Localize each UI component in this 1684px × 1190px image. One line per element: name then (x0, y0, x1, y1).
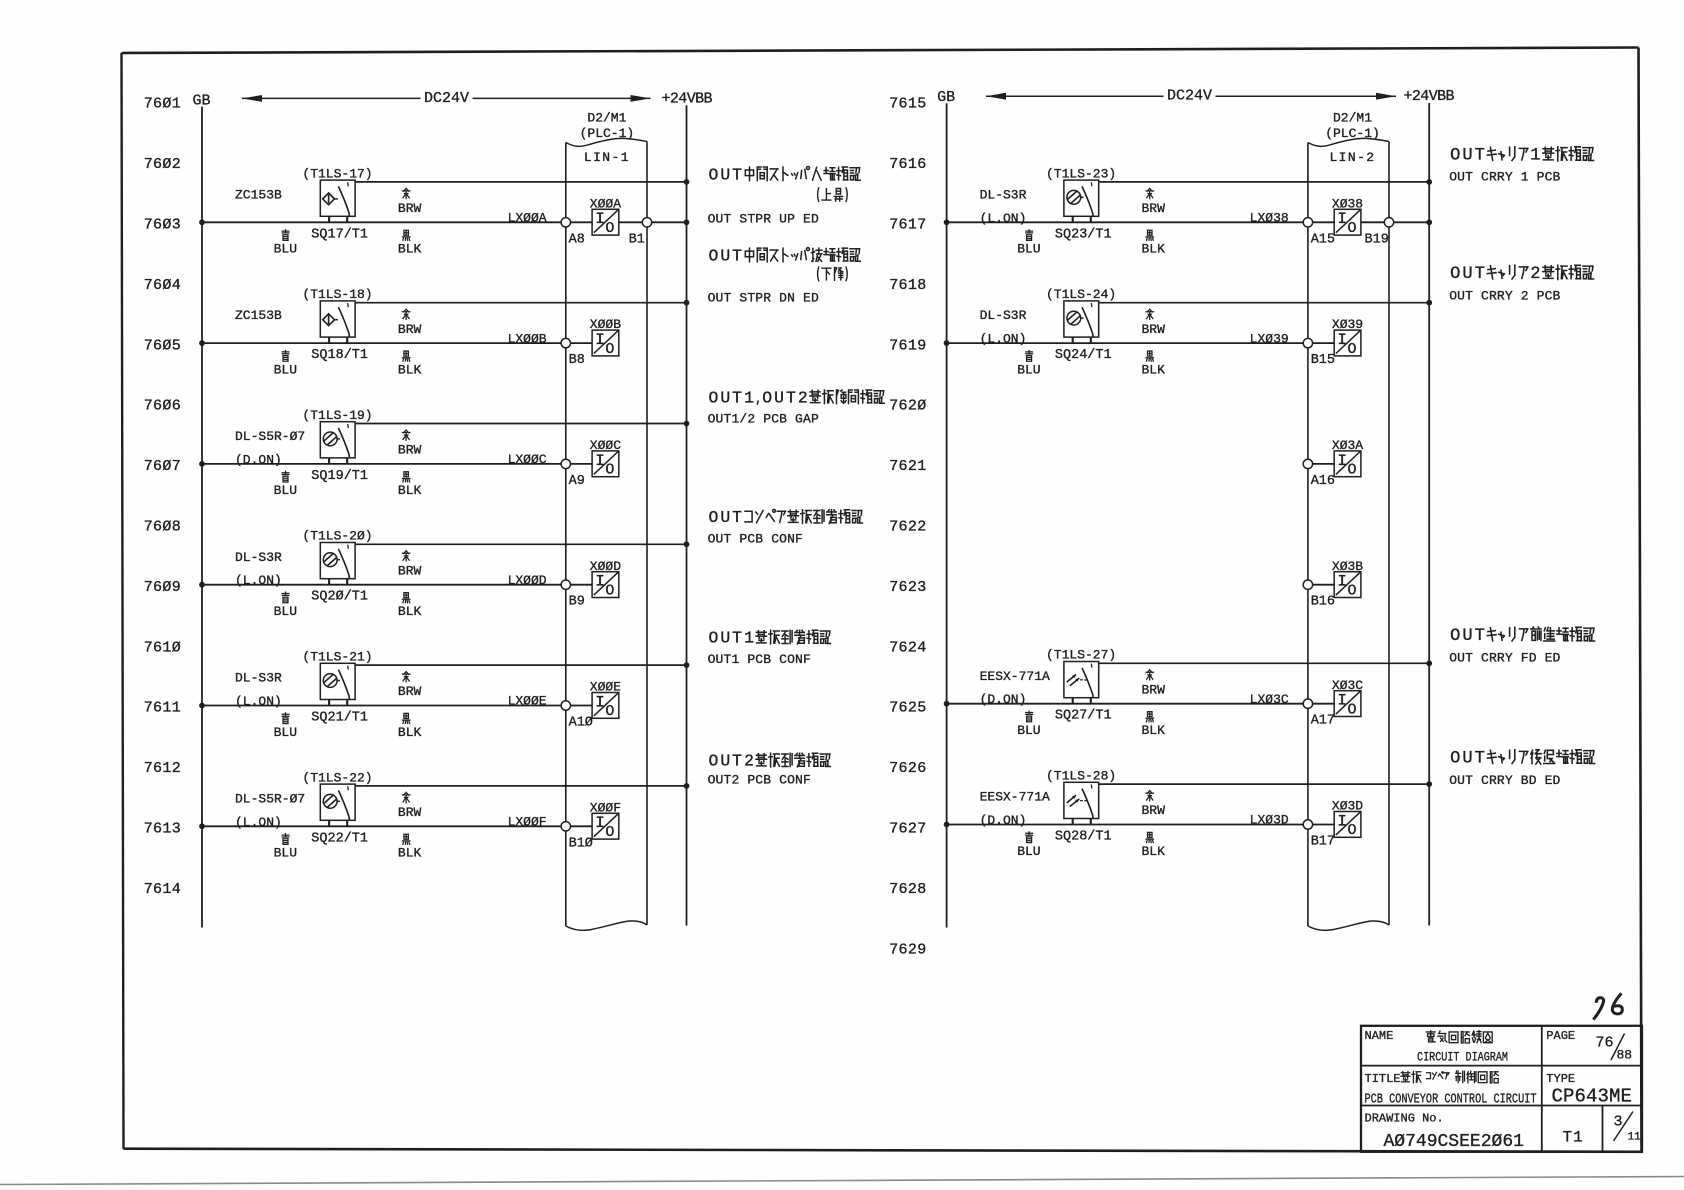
junction on +24VBB bus for SQ28/T1 (1426, 781, 1432, 787)
svg-text:B17: B17 (1311, 835, 1335, 850)
svg-text:B9: B9 (569, 595, 585, 610)
lead color label BLK (398, 230, 422, 256)
lead color label BRW (1142, 791, 1166, 819)
svg-text:O: O (708, 388, 718, 407)
svg-text:A16: A16 (1311, 474, 1335, 489)
svg-text:B1Ø: B1Ø (569, 836, 593, 851)
PLC terminal B10 (561, 822, 570, 831)
svg-text:76: 76 (1596, 1035, 1614, 1052)
description: OUT carry 1 PCB confirm (rung 7617) (1449, 147, 1593, 185)
svg-text:+24VBB: +24VBB (662, 90, 713, 107)
svg-text:XØ3D: XØ3D (1332, 799, 1363, 814)
svg-text:I: I (1337, 331, 1347, 349)
svg-text:BLU: BLU (274, 362, 297, 377)
wire rung 7627 from GB bus to PLC terminal B17 (947, 824, 1335, 826)
svg-text:T: T (786, 388, 796, 407)
svg-text:U: U (720, 388, 730, 407)
svg-text:BLK: BLK (1142, 844, 1166, 859)
svg-text:U: U (720, 629, 730, 648)
lead color label BLK (398, 593, 422, 619)
svg-text:BLU: BLU (1017, 362, 1040, 377)
PLC terminal A8 (561, 218, 570, 227)
wire from switch SQ21/T1 to +24VBB bus (355, 664, 686, 666)
svg-text:DL-S5R-Ø7: DL-S5R-Ø7 (235, 429, 305, 444)
svg-text:(PLC-1): (PLC-1) (580, 126, 635, 141)
description: OUT conveyor PCB arrival confirm (rung 7609) (708, 508, 863, 547)
svg-text:7611: 7611 (144, 700, 181, 717)
svg-text:O: O (605, 341, 614, 358)
svg-text:762Ø: 762Ø (889, 398, 926, 415)
svg-text:T: T (1475, 750, 1485, 769)
svg-text:XØØD: XØØD (590, 559, 621, 574)
lead color label BLU (274, 230, 297, 257)
svg-text:O: O (605, 220, 614, 237)
PLC input point X00E (592, 693, 619, 721)
svg-text:DL-S5R-Ø7: DL-S5R-Ø7 (235, 791, 305, 806)
svg-text:88: 88 (1617, 1048, 1633, 1063)
lead color label BLK (1142, 351, 1166, 377)
svg-text:BLU: BLU (1017, 844, 1040, 859)
svg-text:AØ749CSEE2Ø61: AØ749CSEE2Ø61 (1384, 1132, 1524, 1152)
svg-text:I: I (1337, 692, 1347, 710)
svg-text:7613: 7613 (144, 821, 181, 838)
wire from switch SQ24/T1 to +24VBB bus (1099, 302, 1430, 304)
GB bus vertical wire (right) (946, 103, 948, 927)
svg-text:T: T (732, 508, 742, 527)
svg-text:76Ø7: 76Ø7 (144, 458, 181, 475)
svg-text:7618: 7618 (889, 277, 926, 294)
GB bus vertical wire (left) (201, 107, 203, 928)
PLC terminal A9 (561, 459, 570, 468)
svg-text:(T1LS-28): (T1LS-28) (1046, 769, 1116, 784)
svg-text:BLU: BLU (274, 725, 297, 740)
PLC input point X00B (592, 330, 619, 358)
svg-text:BRW: BRW (1142, 803, 1166, 818)
svg-text:SQ2Ø/T1: SQ2Ø/T1 (311, 590, 368, 605)
PLC terminal B17 (1303, 820, 1312, 829)
svg-text:DL-S3R: DL-S3R (235, 671, 282, 686)
lead color label BLK (1142, 712, 1166, 738)
svg-text:(L.ON): (L.ON) (980, 211, 1027, 226)
svg-text:BLU: BLU (274, 604, 297, 619)
svg-text:O: O (1347, 462, 1356, 479)
svg-text:76Ø8: 76Ø8 (144, 519, 181, 536)
PLC terminal B1 (642, 218, 651, 227)
svg-text:T: T (1475, 147, 1485, 166)
junction on GB bus rung 7611 (199, 703, 205, 709)
svg-text:I: I (1337, 210, 1347, 228)
svg-text:DRAWING No.: DRAWING No. (1365, 1112, 1444, 1126)
svg-text:T: T (1475, 627, 1485, 646)
svg-text:BRW: BRW (398, 322, 422, 337)
svg-text:U: U (1462, 147, 1472, 166)
svg-text:7626: 7626 (889, 760, 926, 777)
lead color label BLU (274, 834, 297, 861)
svg-text:LIN-1: LIN-1 (584, 150, 630, 165)
svg-text:BRW: BRW (398, 443, 422, 458)
svg-text:ZC153B: ZC153B (235, 308, 282, 323)
PLC terminal B9 (561, 580, 570, 589)
svg-text:I: I (595, 210, 605, 228)
svg-text:DL-S3R: DL-S3R (235, 550, 282, 565)
svg-text:A9: A9 (569, 474, 585, 489)
lead color label BRW (1142, 188, 1166, 216)
svg-text:OUT STPR UP ED: OUT STPR UP ED (708, 212, 819, 227)
junction on GB bus rung 7617 (944, 219, 950, 225)
wire stub to PLC input X03A (1313, 463, 1335, 465)
lead color label BLU (1017, 832, 1040, 859)
description: OUT intermediate stopper exit confirm (rung 7605) (708, 246, 861, 305)
svg-text:7619: 7619 (889, 337, 926, 354)
junction on +24VBB bus for SQ19/T1 (684, 421, 690, 427)
svg-text:U: U (720, 165, 730, 184)
lead color label BLK (398, 834, 422, 860)
wire rung 7613 from GB bus to PLC terminal B10 (202, 825, 592, 827)
svg-text:D2/M1: D2/M1 (587, 111, 626, 126)
wire from switch SQ27/T1 to +24VBB bus (1099, 662, 1430, 664)
wire stub to PLC input X03B (1313, 584, 1335, 586)
svg-text:BRW: BRW (398, 201, 422, 216)
svg-text:O: O (708, 246, 718, 265)
svg-text:XØ39: XØ39 (1332, 317, 1363, 332)
svg-text:U: U (1462, 265, 1472, 284)
svg-text:76Ø1: 76Ø1 (144, 96, 181, 113)
svg-text:EESX-771A: EESX-771A (980, 669, 1050, 684)
svg-text:LXØ3D: LXØ3D (1250, 813, 1289, 828)
svg-text:BLU: BLU (274, 846, 297, 861)
svg-text:T: T (732, 388, 742, 407)
svg-text:LXØ39: LXØ39 (1250, 331, 1289, 346)
svg-text:LXØØB: LXØØB (508, 331, 547, 346)
PLC terminal A17 (1303, 699, 1312, 708)
svg-text:LXØ38: LXØ38 (1250, 211, 1289, 226)
limit switch SQ21/T1 (T1LS-21) type DL-S3R (320, 663, 355, 705)
svg-text:I: I (595, 331, 605, 349)
svg-text:SQ23/T1: SQ23/T1 (1055, 227, 1112, 242)
svg-text:O: O (1450, 750, 1460, 769)
description: OUT2 PCB arrival confirm (rung 7613) (708, 752, 831, 788)
svg-text:76Ø3: 76Ø3 (144, 217, 181, 234)
title block TYPE cell CP643ME (1546, 1072, 1632, 1108)
svg-text:O: O (1450, 627, 1460, 646)
junction on +24VBB bus for SQ27/T1 (1426, 660, 1432, 666)
svg-text:BLU: BLU (1017, 723, 1040, 738)
svg-text:DC24V: DC24V (1167, 88, 1212, 105)
svg-text:BRW: BRW (1142, 201, 1166, 216)
svg-text:(D.ON): (D.ON) (235, 452, 282, 467)
PLC terminal B8 (561, 338, 570, 347)
svg-text:7623: 7623 (889, 579, 926, 596)
svg-text:7627: 7627 (889, 821, 926, 838)
svg-text:(L.ON): (L.ON) (235, 694, 282, 709)
svg-text:(T1LS-23): (T1LS-23) (1046, 166, 1116, 181)
svg-text:O: O (605, 703, 614, 720)
svg-text:(D.ON): (D.ON) (980, 692, 1027, 707)
svg-text:OUT1/2 PCB GAP: OUT1/2 PCB GAP (708, 412, 819, 427)
PLC terminal A16 (1303, 459, 1312, 468)
svg-text:T: T (1475, 265, 1485, 284)
svg-text:(T1LS-21): (T1LS-21) (302, 650, 372, 665)
svg-text:BLK: BLK (1142, 242, 1166, 257)
svg-text:DC24V: DC24V (424, 90, 469, 107)
PLC terminal A15 (1303, 218, 1312, 227)
svg-text:CP643ME: CP643ME (1552, 1086, 1633, 1108)
svg-text:(L.ON): (L.ON) (235, 573, 282, 588)
svg-text:A8: A8 (569, 232, 585, 247)
svg-text:A15: A15 (1311, 232, 1335, 247)
limit switch SQ20/T1 (T1LS-20) type DL-S3R (320, 543, 355, 585)
svg-text:7628: 7628 (889, 881, 926, 898)
limit switch SQ19/T1 (T1LS-19) type DL-S5R-07 (320, 422, 355, 464)
svg-text:U: U (720, 246, 730, 265)
description: OUT intermediate stopper entry confirm (rung 7603) (708, 165, 861, 226)
junction on GB bus rung 7627 (944, 822, 950, 828)
svg-text:O: O (1347, 341, 1356, 358)
junction on GB bus rung 7603 (199, 219, 205, 225)
svg-text:U: U (774, 388, 784, 407)
PLC input point X039 (1334, 330, 1361, 358)
lead color label BLK (1142, 832, 1166, 858)
description: OUT1 PCB arrival confirm (rung 7611) (708, 629, 831, 667)
svg-text:OUT STPR DN ED: OUT STPR DN ED (708, 291, 819, 306)
svg-text:(T1LS-19): (T1LS-19) (302, 408, 372, 423)
svg-text:BLK: BLK (398, 846, 422, 861)
svg-text:SQ27/T1: SQ27/T1 (1055, 709, 1112, 724)
svg-text:SQ18/T1: SQ18/T1 (311, 348, 368, 363)
wire from X00A to +24VBB bus (619, 221, 687, 223)
lead color label BLU (1017, 351, 1040, 378)
lead color label BLK (398, 472, 422, 498)
title block DRAWING No. cell (1365, 1112, 1524, 1153)
svg-text:7622: 7622 (889, 519, 926, 536)
svg-text:(L.ON): (L.ON) (235, 815, 282, 830)
lead color label BRW (398, 188, 422, 216)
svg-text:BLK: BLK (398, 362, 422, 377)
PLC input point X00A (592, 209, 619, 237)
PLC input point X03B (1334, 572, 1361, 600)
svg-text:(T1LS-2Ø): (T1LS-2Ø) (302, 529, 372, 544)
lead color label BLK (398, 351, 422, 377)
svg-text:7625: 7625 (889, 700, 926, 717)
limit switch SQ22/T1 (T1LS-22) type DL-S5R-07 (320, 784, 355, 826)
svg-text:OUT1 PCB CONF: OUT1 PCB CONF (708, 652, 811, 667)
PLC connector LIN-2 block (1308, 138, 1389, 930)
svg-text:7612: 7612 (144, 760, 181, 777)
lead color label BLU (274, 351, 297, 378)
svg-text:LIN-2: LIN-2 (1329, 150, 1375, 165)
svg-text:B1: B1 (629, 232, 645, 247)
svg-text:(T1LS-18): (T1LS-18) (302, 287, 372, 302)
lead color label BRW (398, 551, 422, 579)
label D2/M1 (PLC-1) above LIN-1 (580, 111, 635, 142)
PLC terminal B19 (1384, 218, 1393, 227)
svg-text:76Ø9: 76Ø9 (144, 579, 181, 596)
svg-text:LXØØE: LXØØE (508, 694, 547, 709)
junction on +24VBB bus rung 7617 (1426, 219, 1432, 225)
svg-text:B8: B8 (569, 353, 585, 368)
svg-text:B15: B15 (1311, 353, 1335, 368)
svg-text:BRW: BRW (1142, 322, 1166, 337)
description: OUT carry backward end confirm (rung 7627) (1449, 750, 1594, 788)
lead color label BLK (1142, 230, 1166, 256)
junction on GB bus rung 7607 (199, 461, 205, 467)
svg-text:XØ38: XØ38 (1332, 196, 1363, 211)
lead color label BRW (398, 309, 422, 337)
svg-text:O: O (605, 824, 614, 841)
svg-text:U: U (720, 752, 730, 771)
svg-text:76Ø4: 76Ø4 (144, 277, 181, 294)
junction on +24VBB bus for SQ18/T1 (684, 300, 690, 306)
svg-text:O: O (708, 165, 718, 184)
svg-text:OUT CRRY BD ED: OUT CRRY BD ED (1449, 773, 1560, 788)
junction on +24VBB bus for SQ20/T1 (684, 541, 690, 547)
svg-text:(T1LS-24): (T1LS-24) (1046, 287, 1116, 302)
svg-text:O: O (1450, 265, 1460, 284)
svg-text:PAGE: PAGE (1546, 1029, 1575, 1043)
limit switch SQ17/T1 (T1LS-17) type ZC153B (320, 180, 355, 222)
svg-text:O: O (605, 462, 614, 479)
svg-text:TITLE: TITLE (1365, 1072, 1401, 1086)
scanned paper bottom edge (0, 1177, 1684, 1185)
junction on GB bus rung 7619 (944, 340, 950, 346)
svg-text:SQ22/T1: SQ22/T1 (311, 831, 368, 846)
PLC input point X00C (592, 451, 619, 479)
svg-text:A1Ø: A1Ø (569, 716, 593, 731)
svg-text:TYPE: TYPE (1546, 1072, 1575, 1086)
svg-text:B16: B16 (1311, 595, 1335, 610)
DC24V span arrow (left) (242, 90, 651, 107)
junction on GB bus rung 7613 (199, 823, 205, 829)
PLC input point X00D (592, 572, 619, 600)
row numbers 7601-7614 (left) (144, 96, 181, 898)
svg-text:7615: 7615 (889, 96, 926, 113)
limit switch SQ28/T1 (T1LS-28) type EESX-771A (1064, 782, 1099, 824)
junction on +24VBB bus for SQ23/T1 (1426, 179, 1432, 185)
lead color label BLU (274, 713, 297, 740)
svg-text:76Ø6: 76Ø6 (144, 398, 181, 415)
svg-text:XØØE: XØØE (590, 680, 621, 695)
svg-text:O: O (1347, 701, 1356, 718)
junction on +24VBB bus for SQ21/T1 (684, 662, 690, 668)
svg-text:XØØB: XØØB (590, 317, 621, 332)
svg-text:CIRCUIT DIAGRAM: CIRCUIT DIAGRAM (1417, 1050, 1508, 1065)
junction on +24VBB bus for SQ24/T1 (1426, 300, 1432, 306)
wire from switch SQ22/T1 to +24VBB bus (355, 785, 686, 787)
lead color label BRW (398, 430, 422, 458)
svg-text:NAME: NAME (1365, 1029, 1394, 1043)
svg-text:BLU: BLU (274, 483, 297, 498)
wire from switch SQ28/T1 to +24VBB bus (1099, 783, 1430, 785)
junction on +24VBB bus for SQ17/T1 (684, 179, 690, 185)
svg-text:BLK: BLK (398, 483, 422, 498)
lead color label BLU (1017, 230, 1040, 257)
svg-text:7614: 7614 (144, 881, 181, 898)
PLC input point X03D (1334, 812, 1361, 840)
svg-text:O: O (1347, 220, 1356, 237)
svg-text:PCB CONVEYOR CONTROL CIRCUIT: PCB CONVEYOR CONTROL CIRCUIT (1365, 1092, 1537, 1108)
lead color label BLU (274, 471, 297, 498)
svg-text:ZC153B: ZC153B (235, 187, 282, 202)
svg-text:1: 1 (744, 388, 754, 407)
junction on GB bus rung 7625 (944, 701, 950, 707)
svg-text:3: 3 (1614, 1114, 1623, 1131)
title block NAME cell (1365, 1029, 1509, 1065)
handwritten page number 76 (1593, 993, 1622, 1019)
svg-text:2: 2 (798, 388, 808, 407)
svg-text:LXØØD: LXØØD (508, 573, 547, 588)
svg-text:BRW: BRW (1142, 682, 1166, 697)
title block frame (1361, 1026, 1642, 1152)
svg-text:1: 1 (744, 629, 754, 648)
svg-text:(L.ON): (L.ON) (980, 332, 1027, 347)
svg-text:LXØØF: LXØØF (508, 815, 547, 830)
svg-text:O: O (708, 752, 718, 771)
svg-text:2: 2 (744, 752, 754, 771)
svg-text:7624: 7624 (889, 639, 926, 656)
svg-text:BLU: BLU (274, 242, 297, 257)
svg-text:(T1LS-27): (T1LS-27) (1046, 648, 1116, 663)
PLC input point X03C (1334, 691, 1361, 719)
svg-text:SQ24/T1: SQ24/T1 (1055, 348, 1112, 363)
wire from switch SQ23/T1 to +24VBB bus (1099, 181, 1430, 183)
PLC input point X03A (1334, 451, 1361, 479)
PLC terminal B15 (1303, 338, 1312, 347)
svg-text:I: I (595, 573, 605, 591)
wire from switch SQ20/T1 to +24VBB bus (355, 543, 686, 545)
svg-text:I: I (1337, 812, 1347, 830)
svg-text:BLU: BLU (1017, 242, 1040, 257)
svg-text:T: T (732, 629, 742, 648)
svg-text:I: I (595, 814, 605, 832)
svg-text:SQ21/T1: SQ21/T1 (311, 711, 368, 726)
svg-text:SQ28/T1: SQ28/T1 (1055, 830, 1112, 845)
label D2/M1 (PLC-1) above LIN-2 (1325, 111, 1380, 142)
svg-text:O: O (1347, 582, 1356, 599)
lead color label BRW (398, 672, 422, 700)
svg-text:SQ19/T1: SQ19/T1 (311, 469, 368, 484)
description: OUT1/OUT2 PCB gap confirm (rung 7607) (708, 388, 885, 426)
svg-text:BRW: BRW (398, 563, 422, 578)
PLC input point X038 (1334, 209, 1361, 237)
svg-text:OUT CRRY 2 PCB: OUT CRRY 2 PCB (1449, 289, 1560, 304)
svg-text:BLK: BLK (398, 725, 422, 740)
svg-text:U: U (720, 508, 730, 527)
svg-text:7617: 7617 (889, 217, 926, 234)
svg-text:I: I (595, 693, 605, 711)
title block PAGE cell 76/88 (1546, 1029, 1632, 1063)
svg-text:O: O (762, 388, 772, 407)
svg-text:2: 2 (1530, 265, 1540, 284)
junction on +24VBB bus rung 7603 (684, 219, 690, 225)
svg-text:7629: 7629 (889, 941, 926, 958)
svg-text:(PLC-1): (PLC-1) (1325, 126, 1380, 141)
svg-text:D2/M1: D2/M1 (1333, 111, 1372, 126)
svg-text:7621: 7621 (889, 458, 926, 475)
svg-text:LXØ3C: LXØ3C (1250, 692, 1289, 707)
junction on +24VBB bus for SQ22/T1 (684, 783, 690, 789)
svg-text:A17: A17 (1311, 714, 1335, 729)
svg-text:BLK: BLK (398, 604, 422, 619)
svg-text:+24VBB: +24VBB (1404, 88, 1455, 105)
+24VBB bus vertical wire (right) (1428, 103, 1430, 926)
lead color label BRW (398, 792, 422, 820)
junction on GB bus rung 7605 (199, 340, 205, 346)
svg-text:U: U (1462, 750, 1472, 769)
svg-text:XØ3B: XØ3B (1332, 559, 1363, 574)
svg-text:I: I (1337, 573, 1347, 591)
svg-text:(D.ON): (D.ON) (980, 813, 1027, 828)
svg-text:LXØØC: LXØØC (508, 452, 547, 467)
